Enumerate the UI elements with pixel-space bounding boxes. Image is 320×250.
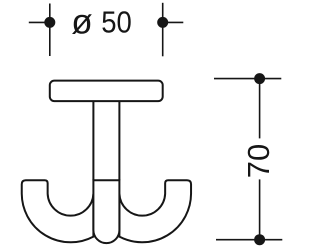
hook left arm outline <box>22 180 94 242</box>
svg-text:50: 50 <box>101 5 132 40</box>
hook right arm outline <box>119 180 191 242</box>
central tip (rounded-bottom bar over hook arcs) <box>93 180 119 243</box>
dimension 70: vertical line upper segment <box>259 79 261 139</box>
ceiling plate <box>50 81 163 102</box>
dimension 70: bottom dot <box>254 234 265 245</box>
svg-text:ø: ø <box>71 3 92 42</box>
stem <box>93 101 119 180</box>
dimension ø50: right dot <box>157 17 168 28</box>
dimension 70: bottom extension line <box>216 239 282 241</box>
dimension 70: top dot <box>254 73 265 84</box>
dimension ø50: left extension line <box>29 3 184 57</box>
dimension ø50: left tail <box>29 21 50 23</box>
dimension ø50: right extension line <box>162 3 164 57</box>
dimension 70: vertical line lower segment <box>259 179 261 239</box>
dimension ø50: left dot <box>44 17 55 28</box>
svg-text:70: 70 <box>241 144 276 178</box>
dimension 70: top extension line <box>214 79 282 240</box>
dimension ø50: right tail <box>163 21 184 23</box>
